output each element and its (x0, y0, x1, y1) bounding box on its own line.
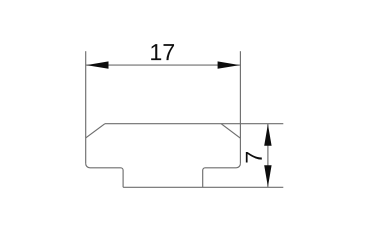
left chamfer edge (86, 124, 105, 138)
arrowhead right of dim 17 (218, 61, 240, 68)
dimension text 17 (151, 44, 174, 60)
dimension line 17 (86, 64, 241, 66)
dimension text 7 (rotated 90 deg) (246, 152, 262, 163)
profile top face edge + right extension line for dim 7 (105, 123, 283, 125)
right chamfer edge (221, 124, 240, 139)
tab bottom edge + right extension line for dim 7 (123, 186, 283, 188)
arrowhead left of dim 17 (86, 61, 108, 68)
left side edge + extension line for dim 17 (85, 51, 87, 163)
right side edge + extension line for dim 17 (239, 51, 241, 163)
arrowhead top of dim 7 (264, 124, 271, 146)
arrowhead bottom of dim 7 (264, 165, 271, 187)
bottom-left contour: fillet, bottom face, step round, step edge (86, 164, 123, 188)
dimension line 7 (267, 124, 269, 188)
bottom-right contour: step edge, step round, bottom face, fillet (203, 164, 241, 188)
